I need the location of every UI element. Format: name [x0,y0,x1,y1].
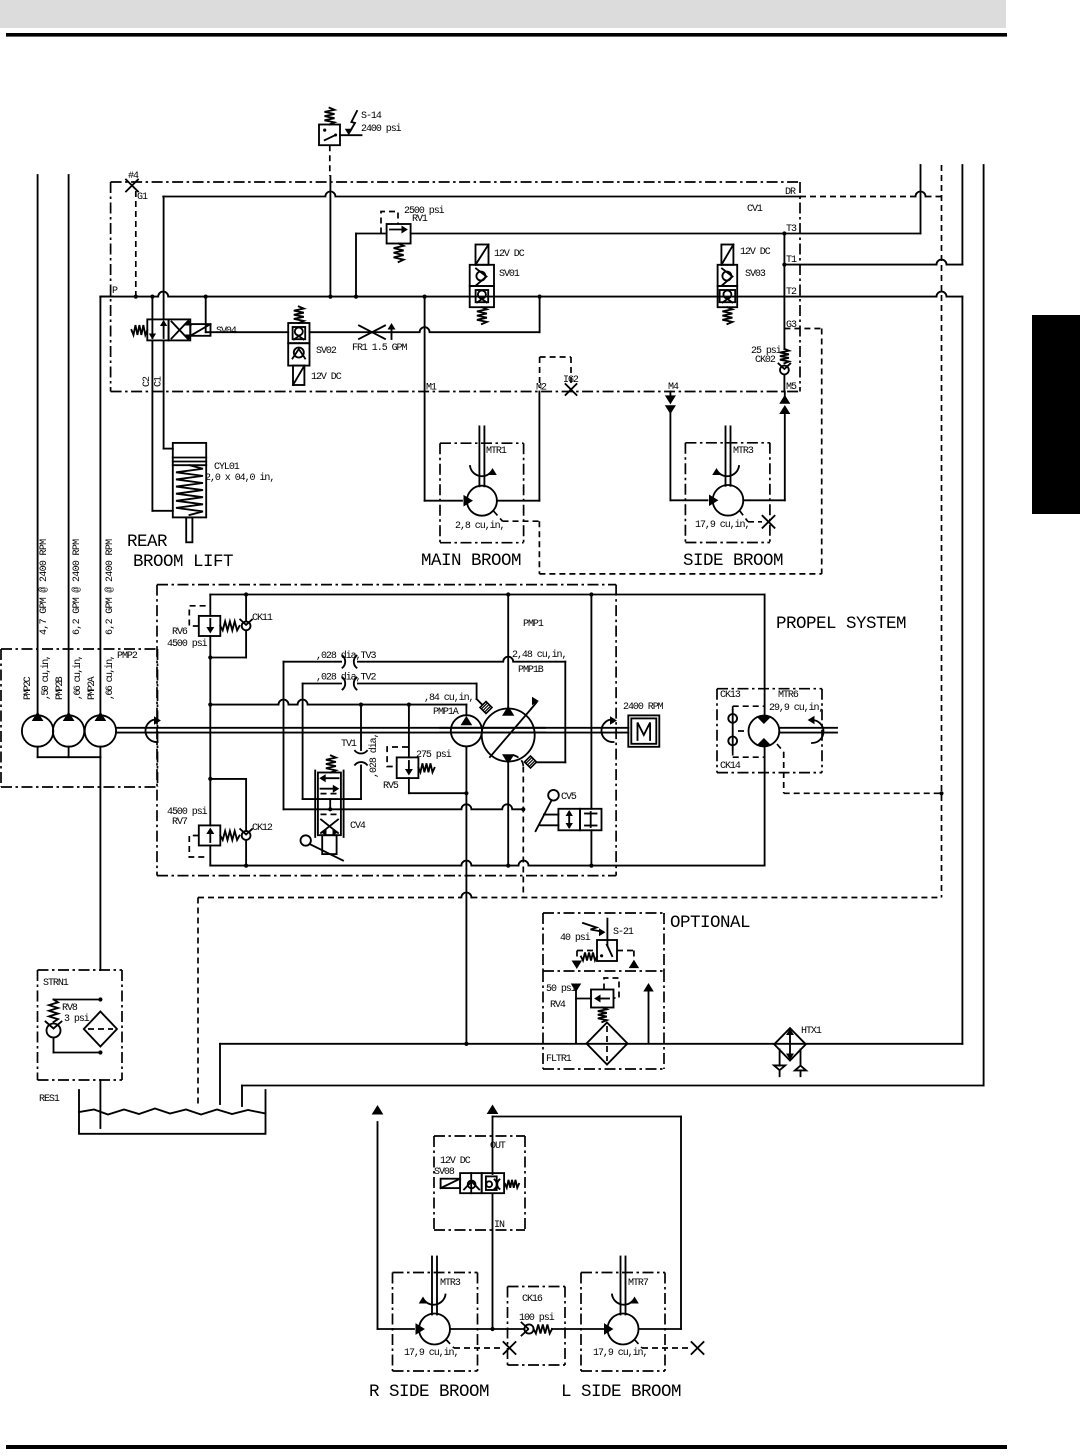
MTR1 rotation arrow [470,466,496,476]
solenoid valve SV03 [718,245,738,325]
wire R broom ports [378,1324,525,1334]
SV02 labels [311,346,342,383]
plugged port X side broom [763,516,775,528]
MTR3 labels [695,446,754,531]
MTR3R labels [404,1278,461,1359]
plugged port X left broom [692,1342,704,1354]
wire outer return line [242,1085,984,1087]
pump name labels (rotated) [23,656,116,700]
wire vertical T2 extension down [961,297,963,1044]
PMP1B labels [512,619,566,676]
HTX1 air arrows [774,1050,806,1077]
coupling M5 [780,396,789,414]
PROPEL SYSTEM title [776,614,906,634]
svg-text:RV5: RV5 [383,781,399,792]
check valve CK12 [210,779,252,868]
relief valve RV5 [387,705,434,779]
svg-text:RV6: RV6 [172,627,188,638]
svg-text:PMP2A: PMP2A [87,676,98,700]
RV5 labels [383,749,452,792]
wire M1 vertical [424,297,426,392]
CYL01 labels [205,462,274,484]
drive shaft [116,728,628,733]
bottom rule [6,1445,1007,1449]
wire RV1 input riser [354,234,387,299]
wire L broom ports [605,1324,682,1334]
CK12 label [252,823,273,834]
CK11 label [252,613,273,624]
svg-text:CV1: CV1 [747,204,763,215]
svg-text:M1: M1 [426,383,437,394]
svg-text:2,8 cu,in,: 2,8 cu,in, [455,520,505,532]
svg-text:T1: T1 [786,255,797,266]
filter FLTR1 [587,1023,628,1065]
motor MTR6 [749,716,780,747]
MTR3R shaft [432,1257,437,1315]
MTR6 boundary (dash-dot) [717,689,822,773]
FR1 label [352,343,408,354]
svg-text:M5: M5 [786,382,797,393]
main broom boundary (dash-dot) [440,443,524,543]
P label [112,286,118,297]
wire M5 to motor [743,392,785,501]
svg-text:CK16: CK16 [522,1294,543,1305]
PMP2 label [117,651,138,662]
svg-text:IN: IN [494,1220,505,1231]
svg-text:6,2 GPM @ 2400 RPM: 6,2 GPM @ 2400 RPM [104,539,116,635]
orifice TV2 [342,677,357,690]
L broom boundary (dash-dot) [581,1273,665,1372]
REAR BROOM LIFT title [127,532,233,572]
svg-text:12V DC: 12V DC [494,249,525,260]
MTR7 labels [593,1278,649,1359]
svg-text:CK11: CK11 [252,613,273,624]
svg-text:CV4: CV4 [350,821,366,832]
CV5 label [561,792,577,803]
plugged port IG2 [563,375,579,395]
wire CV5 riser [589,595,593,868]
R broom boundary (dash-dot) [393,1273,478,1372]
plugged port X right broom [504,1342,516,1354]
pump PMP1A [451,705,482,747]
RV6 labels [167,627,208,650]
wire S-14 to P (dashed then solid) [329,145,332,296]
svg-text:G1: G1 [137,192,148,203]
svg-text:17,9 cu,in,: 17,9 cu,in, [404,1347,458,1359]
wire pump suction manifold [38,747,101,970]
CV4 label [350,821,366,832]
M4 port label [668,382,679,393]
motor MTR7 [608,1314,639,1345]
svg-text:3 psi: 3 psi [64,1013,90,1025]
wire RV4 bypass left [572,984,591,1044]
MTR3 shaft [726,426,731,485]
svg-text:SV03: SV03 [745,269,766,280]
RV4 FLTR1 boundary (dash-dot) [543,971,664,1069]
MTR7 case drain [635,1340,692,1349]
svg-text:,66 cu,in,: ,66 cu,in, [72,656,84,700]
svg-text:G3: G3 [786,320,797,331]
wire C1 line [164,197,173,449]
MTR1 shaft [479,426,484,486]
svg-text:SIDE BROOM: SIDE BROOM [683,551,783,571]
relief valve RV4 [591,978,619,1022]
svg-text:CK14: CK14 [720,761,741,772]
relief valve RV7 [189,825,239,857]
T2 label [786,287,797,298]
wire M2 dashed feed [540,357,571,388]
pressure switch S-21 [572,919,638,968]
svg-text:MTR6: MTR6 [778,690,799,701]
pump PMP2A [85,713,116,747]
wire TV1 line [360,705,362,800]
M2 port label [536,383,547,394]
wire MTR3 case drain (dashed) [740,511,763,522]
SV01 labels [494,249,525,280]
wire cooler line [220,1042,962,1046]
wire charge top line [210,592,764,596]
svg-text:CK13: CK13 [720,690,741,701]
wire T3 up-right corner [920,165,922,234]
svg-text:RV7: RV7 [172,817,188,828]
page header bar [0,0,1006,28]
STRN1 label [43,978,69,989]
motor MTR3 right broom [419,1314,450,1345]
svg-text:HTX1: HTX1 [801,1026,822,1037]
svg-text:PMP2C: PMP2C [23,676,34,700]
wire charge line [210,700,466,707]
wire outer right vertical [983,165,985,1086]
MTR3R case drain [446,1340,503,1349]
M5 port label [786,382,797,393]
svg-text:,84 cu,in,: ,84 cu,in, [424,692,474,704]
CK16 labels [519,1294,555,1324]
wire M4 to motor [670,392,717,506]
svg-text:17,9 cu,in,: 17,9 cu,in, [695,519,749,531]
svg-text:RV1: RV1 [412,214,428,225]
pump PMP2C [22,713,53,747]
TV1 labels [341,733,380,778]
svg-text:SV01: SV01 [499,269,520,280]
wire DR (drain) solid [163,192,800,197]
svg-text:PMP2: PMP2 [117,651,138,662]
RV8 labels [62,1003,90,1025]
MTR6 rotation arrow [809,717,824,743]
wire T1 [782,255,962,267]
solenoid valve SV01 [470,245,494,325]
svg-text:SV02: SV02 [316,346,337,357]
RV1 labels [404,205,445,225]
wire pump riser PMP2B [68,175,70,716]
svg-text:2400 RPM: 2400 RPM [623,702,664,713]
wire MTR6 feed [764,595,766,716]
wire T3 [411,224,921,236]
S-14 labels [361,111,402,135]
SIDE BROOM title [683,551,783,571]
solenoid valve SV04 [132,319,211,340]
check valve CK11 [210,595,252,658]
CK13 CK14 labels [720,690,741,772]
wire broom drain dashed bus [539,329,821,574]
strainer STRN1 boundary (dash-dot) [38,970,123,1080]
flow labels (rotated) [38,539,116,635]
MTR3R rotation arrow [420,1295,446,1305]
svg-text:100 psi: 100 psi [519,1312,555,1324]
strainer element [84,1012,117,1047]
TV3 label [316,650,376,662]
svg-text:S-21: S-21 [613,927,634,938]
svg-text:12V DC: 12V DC [440,1156,471,1167]
orifice TV1 [355,751,367,765]
wire M2 to motor [497,392,540,501]
wire SV08 IN [490,1194,494,1331]
svg-text:MAIN BROOM: MAIN BROOM [421,551,521,571]
PMP2 rotation arrow [145,717,160,742]
wire TV2 line [303,684,482,800]
propel system boundary (dash-dot) [157,585,616,876]
M1 port label [426,383,437,394]
engine M box [628,715,659,746]
wire CV4 bypass line [284,804,524,809]
motor MTR1 [467,486,497,516]
svg-text:,028 dia,TV3: ,028 dia,TV3 [316,650,376,662]
svg-text:BROOM LIFT: BROOM LIFT [133,552,233,572]
RES1 label [39,1094,60,1105]
svg-text:DR: DR [785,187,796,198]
wire DR dashed outside [800,192,942,197]
top rule [6,33,1007,37]
svg-text:,66 cu,in,: ,66 cu,in, [104,656,116,700]
valve CV5 [536,790,602,831]
svg-text:OPTIONAL: OPTIONAL [670,913,750,933]
svg-text:,028 dia,: ,028 dia, [368,733,380,778]
FLTR1 label [546,1054,572,1065]
svg-text:IG2: IG2 [563,375,579,386]
svg-text:MTR1: MTR1 [486,446,507,457]
svg-text:2,48 cu,in,: 2,48 cu,in, [512,649,566,661]
G3 gauge port dashed [784,320,821,331]
test point #4 G1 [126,171,148,203]
svg-text:FLTR1: FLTR1 [546,1054,572,1065]
MTR1 labels [455,446,507,532]
svg-text:T2: T2 [786,287,797,298]
orifice TV3 [342,655,357,668]
svg-text:T3: T3 [786,224,797,235]
wire C2 line [152,297,172,511]
svg-text:S-14: S-14 [361,111,382,122]
wire RV5 out [409,778,467,793]
wire MTR6 return [764,747,766,866]
engine rotation arrow [601,717,616,742]
wire pump riser PMP2C [37,175,39,716]
svg-text:29,9 cu,in,: 29,9 cu,in, [769,702,823,714]
svg-text:MTR7: MTR7 [628,1278,649,1289]
wire outer return to tank [241,1086,243,1107]
relief valve RV1 [381,212,411,263]
wire TV3 line [284,657,566,810]
reservoir RES1 [79,1090,266,1134]
PMP1A labels [424,692,474,718]
svg-text:FR1 1.5 GPM: FR1 1.5 GPM [352,343,408,354]
right side black tab [1032,315,1080,514]
wire SV02 FR1 branch [206,297,540,333]
MTR6 output shaft [779,728,837,733]
svg-text:4,7 GPM @ 2400 RPM: 4,7 GPM @ 2400 RPM [38,539,50,635]
OPTIONAL title [670,913,750,933]
RV7 labels [167,806,208,828]
svg-text:RV4: RV4 [550,1000,566,1011]
drive shaft through pumps [440,728,545,733]
check valve CK16 [522,1323,608,1336]
svg-text:2400 psi: 2400 psi [361,123,402,135]
svg-text:12V DC: 12V DC [740,247,771,258]
svg-text:6,2 GPM @ 2400 RPM: 6,2 GPM @ 2400 RPM [71,539,83,635]
svg-text:REAR: REAR [127,532,168,552]
CK16 boundary (dash-dot) [508,1287,566,1366]
svg-text:SV08: SV08 [434,1167,455,1178]
CK02 labels [751,345,782,366]
svg-text:#4: #4 [128,171,139,182]
flow regulator FR1 [359,324,395,339]
svg-text:PROPEL SYSTEM: PROPEL SYSTEM [776,614,906,634]
svg-text:40 psi: 40 psi [560,932,591,944]
svg-text:17,9 cu,in,: 17,9 cu,in, [593,1347,647,1359]
wire PMP1A drain [464,746,468,1046]
svg-text:RES1: RES1 [39,1094,60,1105]
MAIN BROOM title [421,551,521,571]
C2 port label [142,376,153,387]
optional S-21 boundary (dash-dot) [543,913,664,971]
pump PMP1B [480,595,538,769]
pump PMP2B [53,713,84,747]
wire PMP1B case drain (dashed) [513,755,525,898]
wire R broom return [373,1106,383,1329]
pressure switch S-14 [319,108,362,146]
svg-text:CV5: CV5 [561,792,577,803]
svg-text:275 psi: 275 psi [416,749,452,761]
wire MTR1 case drain (dashed) [494,511,540,574]
wire G1 pilot (dashed) [135,191,137,297]
svg-text:MTR3: MTR3 [440,1278,461,1289]
wire SV08 OUT [488,1106,681,1330]
SV03 labels [740,247,771,280]
wire RV6-RV7 tie vertical [208,595,212,826]
svg-text:12V DC: 12V DC [311,372,342,383]
RV4 labels [546,983,577,1011]
svg-text:CK12: CK12 [252,823,273,834]
heat exchanger HTX1 [774,1028,806,1060]
wire propel bottom line [210,861,764,866]
svg-text:RV8: RV8 [62,1003,78,1014]
svg-text:L SIDE BROOM: L SIDE BROOM [561,1382,681,1402]
wire RV7 to bottom [209,846,211,866]
engine label [623,702,664,713]
svg-text:R SIDE BROOM: R SIDE BROOM [369,1382,489,1402]
wire PMP1B bottom [506,762,510,868]
wire pump riser PMP2A to P [100,297,113,716]
CV1 label [747,204,763,215]
junction dots on P line [134,295,542,299]
wire vertical tank T1 ext [961,165,963,265]
motor MTR3 (side broom) [713,485,744,516]
svg-text:PMP1A: PMP1A [433,707,459,718]
svg-text:PMP1B: PMP1B [518,665,544,676]
control valve CV4 [301,756,344,861]
C1 port label [154,376,165,387]
wire T3-T1-T2 tie vertical [783,234,785,349]
wire MTR6 case drain (dashed) [777,744,942,793]
svg-text:PMP1: PMP1 [523,619,544,630]
wire dashed drain vertical [939,165,943,898]
MTR7 shaft [621,1257,626,1315]
check valves CK13 CK14 [728,706,764,757]
svg-text:,50 cu,in,: ,50 cu,in, [40,656,52,700]
svg-text:C2: C2 [142,376,153,387]
wire RV4 bypass right [644,984,653,1044]
R SIDE BROOM title [369,1382,489,1402]
svg-text:MTR3: MTR3 [733,446,754,457]
svg-text:CK02: CK02 [755,355,776,366]
L SIDE BROOM title [561,1382,681,1402]
svg-text:STRN1: STRN1 [43,978,69,989]
svg-text:,028 dia,TV2: ,028 dia,TV2 [316,672,376,684]
relief valve RV8 [46,997,103,1054]
pump group PMP2 boundary (dash-dot) [1,649,158,787]
SV04 label [216,326,237,337]
solenoid valve SV02 [288,307,309,386]
S-21 labels [560,927,634,944]
MTR3 rotation arrow [713,466,739,476]
MTR6 labels [769,690,823,714]
wire P to T2 main line [100,292,962,297]
HTX1 label [801,1026,822,1037]
wire M1 to motor [425,392,472,506]
svg-text:M2: M2 [536,383,547,394]
TV2 label [316,672,376,684]
SV08 labels [434,1141,506,1231]
svg-text:2,0 x 04,0 in,: 2,0 x 04,0 in, [205,472,274,484]
svg-text:TV1: TV1 [341,739,357,750]
side broom boundary (dash-dot) [685,443,770,543]
DR label [785,187,796,198]
svg-text:CYL01: CYL01 [214,462,240,473]
svg-text:C1: C1 [154,376,165,387]
manifold CV1 boundary (dash-dot box) [111,182,800,392]
wire strainer to tank [99,1080,101,1128]
wire cooler line to tank [219,1044,221,1104]
wire case drain bus (dashed) [198,893,942,1105]
cylinder CYL01 [173,443,206,542]
svg-text:4500 psi: 4500 psi [167,638,208,650]
MTR7 rotation arrow [612,1295,638,1305]
svg-text:PMP2B: PMP2B [55,676,66,700]
solenoid valve SV08 [441,1173,519,1193]
check valve CK02 [779,349,791,392]
relief valve RV6 [189,606,239,636]
SV08 boundary (dash-dot) [434,1136,525,1230]
coupling M4 [666,396,675,413]
